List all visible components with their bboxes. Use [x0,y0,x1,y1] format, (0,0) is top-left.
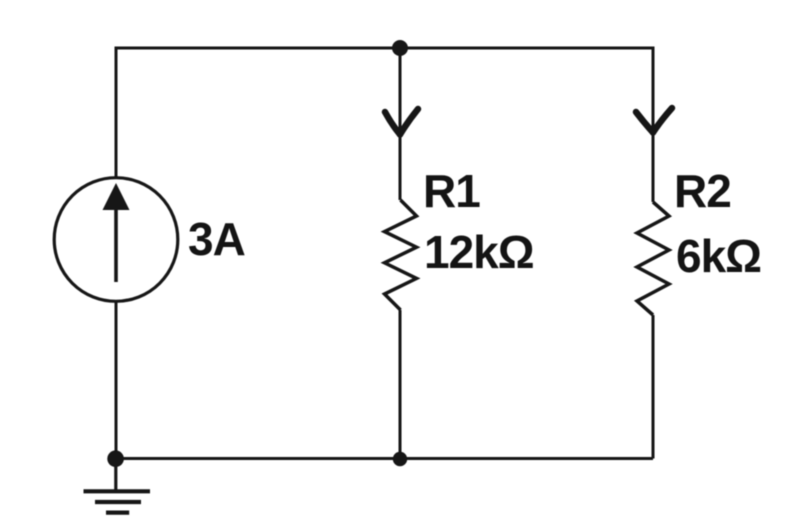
wire right branch upper (top rail corner to resistor R2) [652,47,655,203]
svg-text:12kΩ: 12kΩ [424,226,534,278]
arrow current direction R1 branch (chevron) [385,109,418,135]
current source arrowhead [103,183,130,210]
wire left branch lower (current source to bottom rail) [115,302,118,459]
svg-text:6kΩ: 6kΩ [676,230,761,282]
wire middle branch upper (node to resistor R1) [399,48,402,200]
node bottom middle junction [393,452,407,466]
ground symbol bar 3 [106,510,129,514]
resistor R2 zigzag [637,202,669,315]
wire top rail [116,47,653,50]
svg-text:R2: R2 [674,165,731,217]
wire right branch lower (resistor R2 to bottom rail) [652,315,655,459]
resistor R1 zigzag [385,200,417,310]
svg-text:3A: 3A [188,213,245,265]
current source U1 circle [54,178,178,302]
ground symbol bar 2 [95,500,141,504]
ground symbol bar 1 [84,489,151,493]
wire middle branch lower (resistor R1 to bottom rail) [399,310,402,459]
node bottom left junction [107,450,124,467]
arrow current direction R2 branch (chevron) [636,108,672,133]
node top junction [392,40,408,56]
ground stub wire [114,459,117,490]
current source arrow shaft [114,207,118,282]
wire bottom rail [115,457,653,460]
svg-text:R1: R1 [423,165,480,217]
wire left branch upper (top rail to current source) [115,47,118,178]
